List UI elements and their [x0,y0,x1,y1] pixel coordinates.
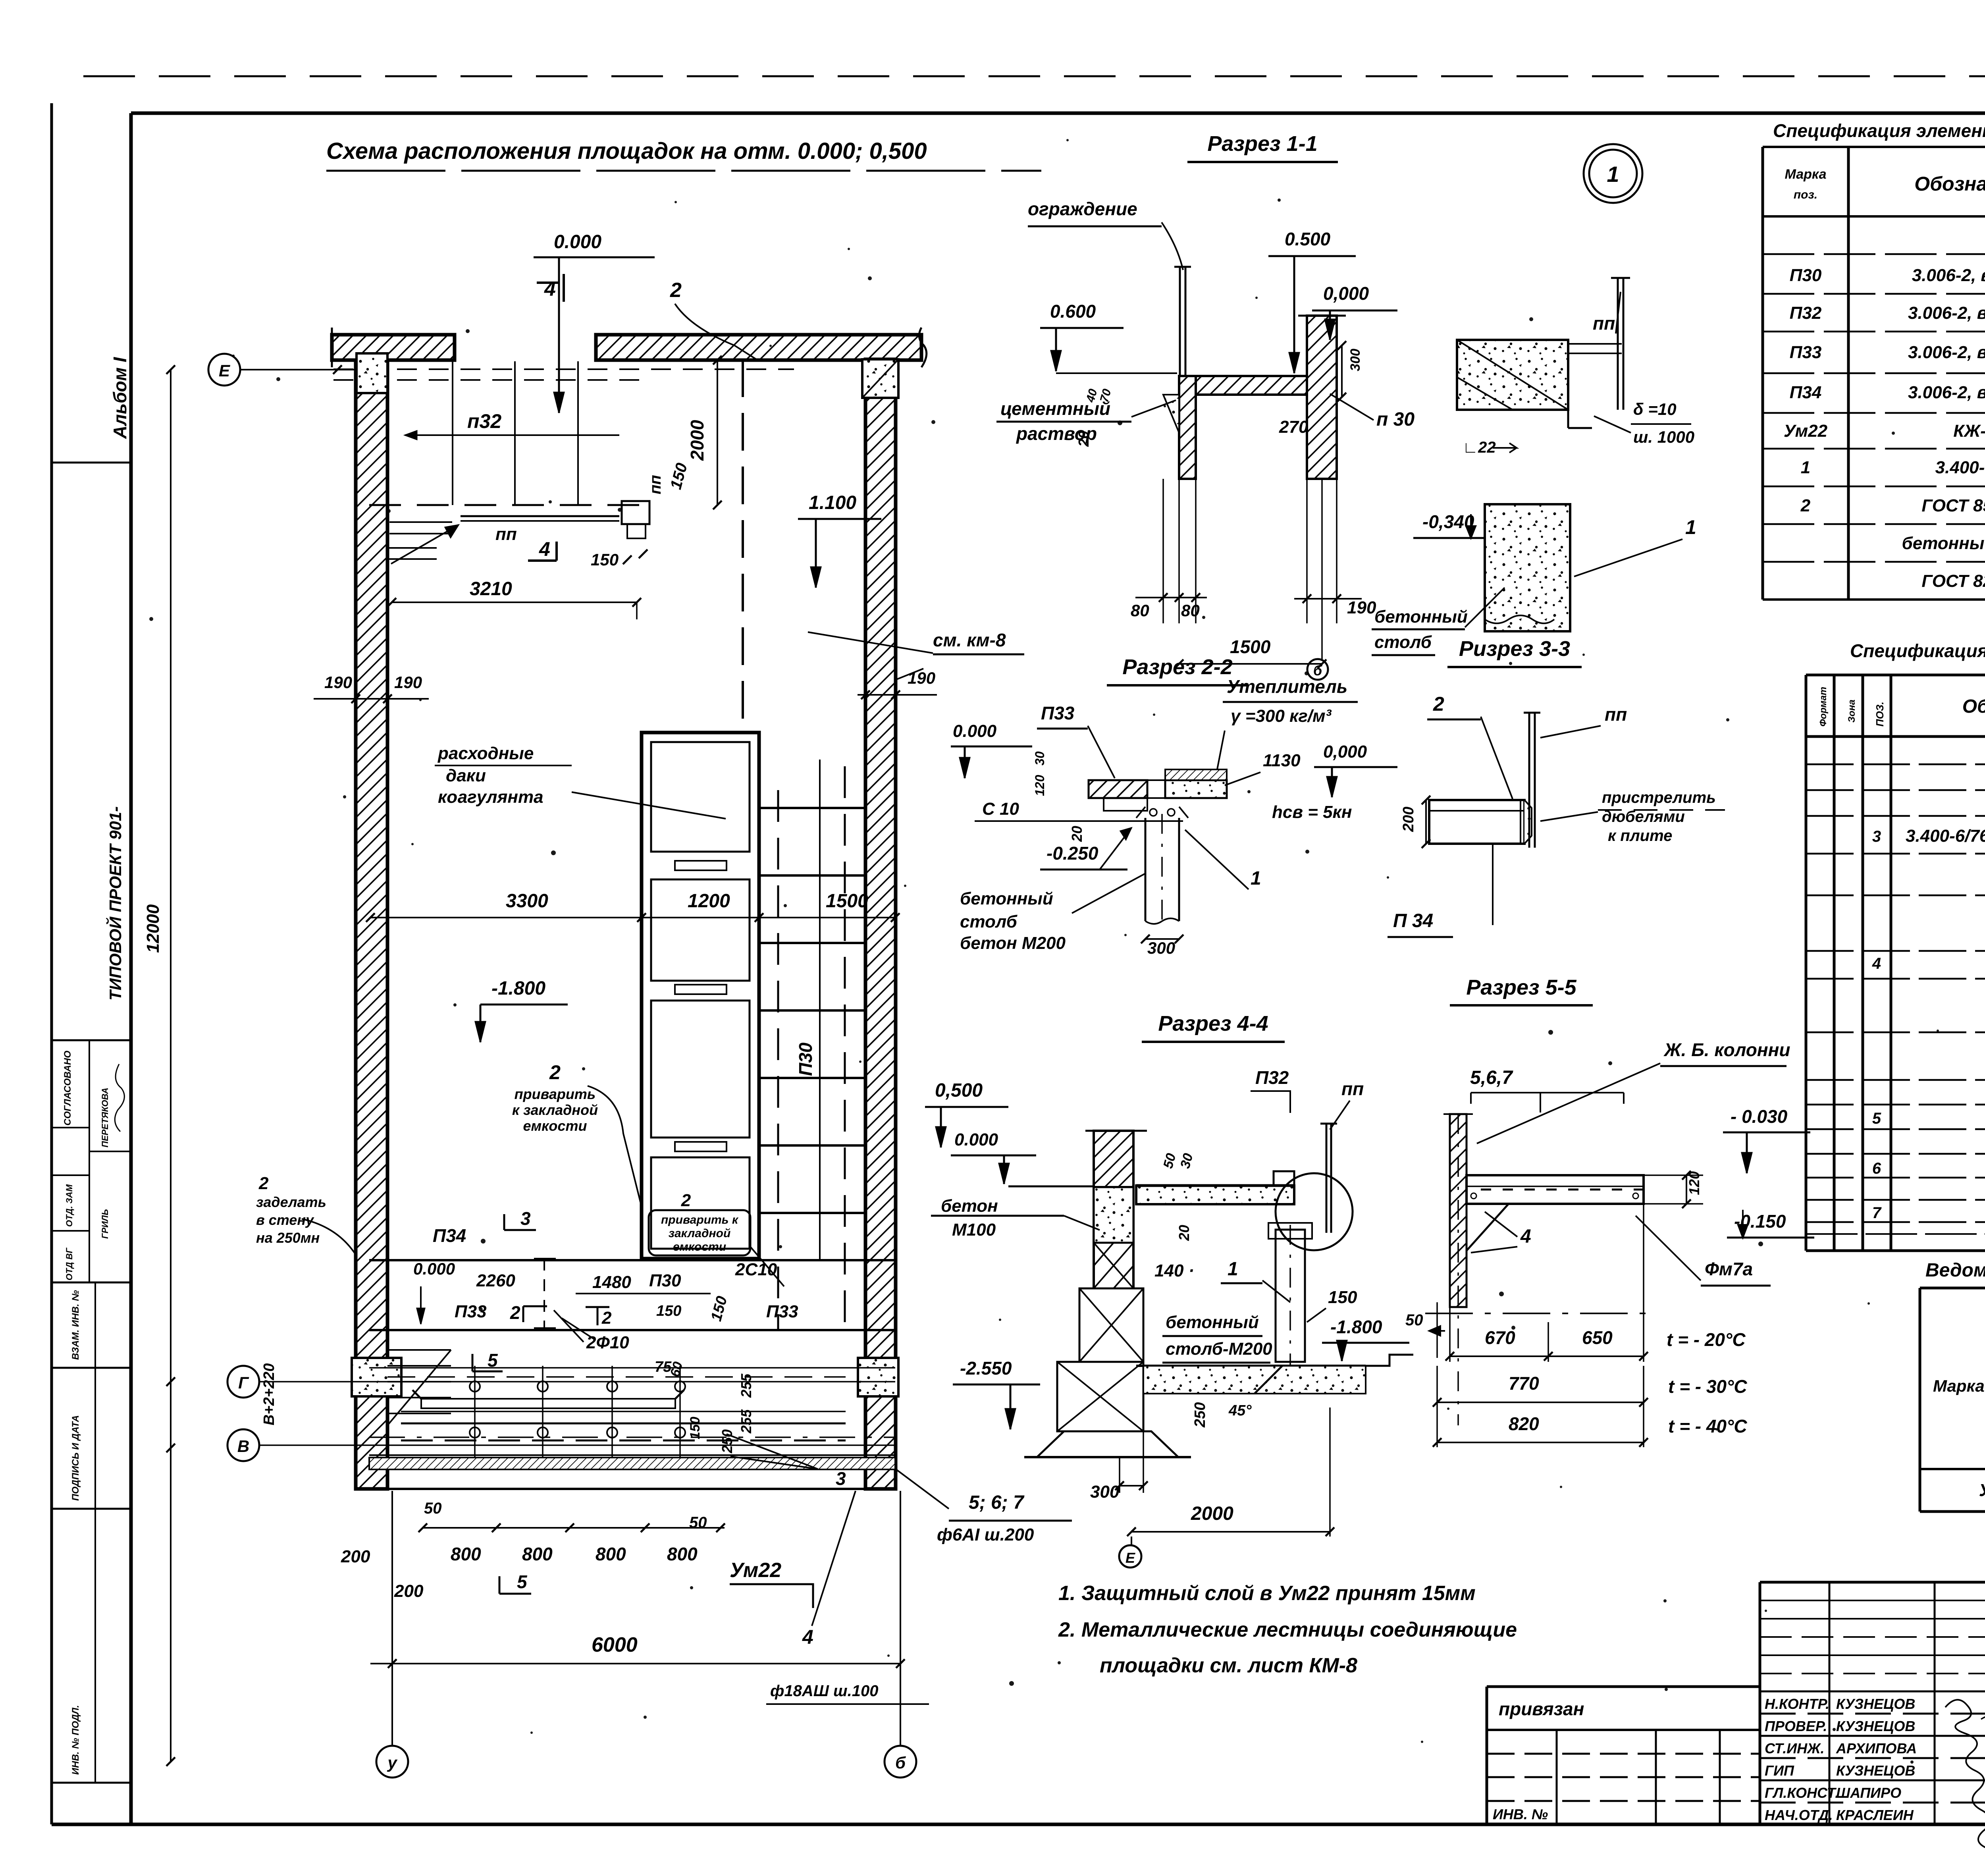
section 5-5 break line [1425,1313,1652,1314]
svg-text:КРАСЛЕИН: КРАСЛЕИН [1836,1807,1914,1823]
section 5-5 dim rows temperature [1449,1307,1451,1362]
svg-text:50: 50 [424,1500,442,1517]
svg-text:бетон: бетон [941,1196,998,1216]
svg-text:4: 4 [539,538,550,560]
section 1-1 axis circle b [1321,479,1323,659]
svg-text:4: 4 [544,278,556,301]
svg-text:2: 2 [1800,496,1811,515]
svg-text:50: 50 [1405,1311,1423,1329]
svg-text:1480: 1480 [592,1273,631,1292]
svg-text:П30: П30 [1790,266,1822,285]
svg-text:Е: Е [1125,1550,1135,1566]
svg-text:коагулянта: коагулянта [438,787,543,807]
svg-text:п32: п32 [467,410,501,432]
section 5-5 corbel [1467,1204,1509,1251]
svg-text:0.000: 0.000 [554,231,601,253]
svg-text:255: 255 [738,1373,754,1398]
svg-text:Г: Г [238,1373,249,1392]
svg-text:3: 3 [520,1208,531,1229]
svg-text:Зона: Зона [1846,700,1857,723]
svg-text:Формат: Формат [1818,687,1829,727]
plan small post PP rect [622,501,649,524]
svg-text:Разрез 2-2: Разрез 2-2 [1122,655,1232,679]
plan bottom left wall closure [356,1488,387,1490]
svg-text:Разрез 1-1: Разрез 1-1 [1207,132,1317,156]
svg-text:800: 800 [595,1544,626,1564]
svg-text:Схема расположения площадок: Схема расположения площадок на отм. 0.00… [326,138,927,164]
svg-text:б: б [895,1753,906,1772]
svg-text:250: 250 [719,1429,735,1454]
svg-text:3.006-2, вып. П-2: 3.006-2, вып. П-2 [1908,343,1985,362]
svg-text:300: 300 [1348,349,1363,371]
sidebar stamp table soglasovano [52,1039,131,1041]
svg-text:3210: 3210 [470,578,512,600]
section 4-4 concrete dots segment inside wall [1094,1187,1133,1243]
svg-text:2260: 2260 [476,1271,515,1290]
svg-text:бетон М200: бетон М200 [960,933,1066,953]
svg-text:5,6,7: 5,6,7 [1470,1067,1513,1088]
dim 2000 vertical [717,359,718,505]
svg-text:200: 200 [1400,807,1417,832]
svg-text:пп: пп [495,524,517,544]
section 4-4 cross braced boxes [1079,1288,1143,1362]
svg-text:поз.: поз. [1794,188,1817,201]
svg-text:см. км-8: см. км-8 [933,630,1006,650]
svg-text:hсв = 5кн: hсв = 5кн [1272,802,1352,822]
svg-text:пп: пп [647,475,664,494]
section 1-1 bottom dims [1162,479,1164,623]
plan P32 plate joint lines [452,361,453,505]
platform edge wedge [389,521,452,523]
plan bottom hatched strip [369,1458,895,1469]
sidebar section tick [52,462,131,464]
svg-text:П33: П33 [1790,343,1822,362]
svg-text:КУЗНЕЦОВ: КУЗНЕЦОВ [1836,1696,1915,1712]
svg-text:1500: 1500 [1230,636,1271,657]
svg-text:Разрез 4-4: Разрез 4-4 [1158,1012,1268,1035]
plan bottom monolithic zone rebar [474,1366,476,1469]
svg-text:3.400-6176: 3.400-6176 [1935,458,1985,477]
svg-text:Обозначение: Обозначение [1962,696,1985,717]
svg-text:80: 80 [1181,601,1200,620]
svg-text:3.006-2, вып. П-2: 3.006-2, вып. П-2 [1908,303,1985,323]
svg-text:П30: П30 [649,1271,681,1290]
plan top wall right segment hatched [596,335,921,360]
plan platform bottom dashed line [369,504,647,506]
svg-text:50: 50 [689,1514,707,1531]
svg-text:150: 150 [1328,1288,1357,1307]
svg-text:250: 250 [1192,1402,1208,1428]
svg-text:-0.250: -0.250 [1046,843,1098,864]
svg-text:2: 2 [1433,693,1444,715]
svg-text:670: 670 [1485,1327,1515,1348]
tank divider nubs [675,861,727,870]
svg-text:150: 150 [688,1417,703,1439]
svg-text:Е: Е [219,361,231,380]
svg-text:привязан: привязан [1499,1699,1584,1719]
svg-text:Ж. Б. колонни: Ж. Б. колонни [1663,1039,1790,1060]
table specification of elements grid [1761,147,1764,600]
svg-text:АРХИПОВА: АРХИПОВА [1836,1740,1917,1756]
svg-text:пп: пп [1341,1078,1364,1099]
svg-text:ГЛ.КОНСТ.: ГЛ.КОНСТ. [1765,1785,1839,1801]
axis circle bottom left [376,1746,408,1778]
privyazan sub table [1556,1730,1558,1824]
svg-text:5; 6; 7: 5; 6; 7 [969,1492,1025,1513]
svg-text:КЖ-44: КЖ-44 [1953,421,1985,441]
svg-text:800: 800 [522,1544,553,1564]
svg-text:800: 800 [451,1544,481,1564]
svg-text:закладной: закладной [669,1227,731,1240]
svg-text:7: 7 [1872,1204,1882,1222]
svg-text:1. Защитный слой в Ум22 при: 1. Защитный слой в Ум22 принят 15мм [1058,1582,1476,1605]
svg-text:П34: П34 [1790,383,1822,402]
svg-text:заделать: заделать [256,1194,326,1210]
svg-text:5: 5 [517,1571,528,1592]
svg-text:1200: 1200 [688,891,730,912]
svg-text:СОГЛАСОВАНО: СОГЛАСОВАНО [62,1051,73,1126]
plan stair lower left [387,1349,451,1351]
svg-text:t = - 40°C: t = - 40°C [1668,1416,1747,1436]
svg-text:ф6АI ш.200: ф6АI ш.200 [937,1525,1034,1544]
section 4-4 footing slab [1136,1365,1366,1367]
svg-text:2. Металлические лестницы со: 2. Металлические лестницы соединяющие [1058,1618,1517,1641]
steel consumption table grid [1919,1288,1921,1512]
svg-text:ГОСТ 8510-72: ГОСТ 8510-72 [1921,496,1985,515]
svg-text:2: 2 [549,1061,561,1084]
svg-text:Разрез 5-5: Разрез 5-5 [1466,976,1576,999]
svg-text:820: 820 [1509,1413,1539,1434]
plan bottom slab band [369,1259,895,1261]
svg-text:расходные: расходные [437,744,534,763]
svg-text:П33: П33 [455,1302,487,1321]
plan stair top left [387,547,437,549]
svg-text:ИНВ. № ПОДЛ.: ИНВ. № ПОДЛ. [70,1705,81,1775]
svg-text:δ =10: δ =10 [1633,400,1677,418]
svg-text:ПОЗ.: ПОЗ. [1874,702,1886,727]
svg-text:20: 20 [1069,826,1085,842]
svg-text:2: 2 [670,279,682,302]
axis circle G [227,1366,259,1398]
section 1-1 slab hatched [1193,376,1323,395]
svg-text:П32: П32 [1255,1067,1289,1088]
svg-text:столб: столб [960,912,1018,931]
title block stacked small rows [1829,1582,1831,1691]
svg-text:ВЗАМ. ИНВ. №: ВЗАМ. ИНВ. № [70,1290,81,1360]
svg-text:2: 2 [510,1302,520,1323]
svg-text:1: 1 [1251,868,1261,889]
svg-text:3: 3 [1872,828,1881,845]
svg-text:1500: 1500 [826,891,868,912]
plan left wall hatched [356,360,387,1489]
svg-text:площадки см. лист КМ-8: площадки см. лист КМ-8 [1100,1654,1357,1677]
svg-text:300: 300 [1147,939,1175,957]
svg-text:3.006-2, вып. П-2: 3.006-2, вып. П-2 [1908,383,1985,402]
svg-text:Фм7а: Фм7а [1705,1259,1753,1279]
svg-text:КУЗНЕЦОВ: КУЗНЕЦОВ [1836,1762,1915,1779]
svg-text:ГИП: ГИП [1765,1762,1794,1779]
svg-text:Марка элемента: Марка элемента [1933,1377,1985,1395]
plan P30 plate joints right strip [759,807,865,809]
svg-text:-2.550: -2.550 [960,1358,1012,1379]
svg-text:140 ·: 140 · [1154,1261,1194,1280]
svg-text:200: 200 [394,1581,424,1601]
svg-text:Ведомость расхода стали на: Ведомость расхода стали на элемент, кг [1925,1260,1985,1281]
svg-text:190: 190 [394,673,422,692]
section 2-2 beam C10 [1104,798,1147,811]
signature scribbles [1945,1700,1985,1849]
svg-text:ПРОВЕР.: ПРОВЕР. [1765,1718,1827,1734]
section 3-3 rail pp [1528,713,1530,848]
svg-text:3300: 3300 [506,891,548,912]
svg-text:П33: П33 [1041,703,1075,723]
overall 12000 dim [170,370,172,1762]
svg-text:2: 2 [681,1191,691,1210]
section 2-2 slab [1089,780,1147,798]
svg-text:п 30: п 30 [1376,409,1415,430]
svg-text:3.400-6/76: 3.400-6/76 [1906,826,1985,846]
sheet frame and borders [50,103,53,1824]
svg-text:ИНВ. №: ИНВ. № [1493,1806,1548,1822]
section 4-4 axis circle E bottom [1131,1537,1132,1545]
detail circle 1 marker [1584,144,1642,203]
svg-text:12000: 12000 [143,904,163,953]
svg-text:к плите: к плите [1608,827,1672,844]
svg-text:150: 150 [591,550,619,569]
svg-text:пп: пп [1593,313,1615,334]
svg-text:6000: 6000 [592,1633,638,1656]
svg-text:0,000: 0,000 [1323,283,1369,304]
svg-text:0.600: 0.600 [1050,301,1096,322]
svg-text:- 0.030: - 0.030 [1731,1106,1788,1127]
section 3-3 plate [1429,800,1524,844]
svg-text:γ =300 кг/м³: γ =300 кг/м³ [1231,706,1332,726]
svg-text:-1.800: -1.800 [1330,1317,1382,1337]
detail rail PP [1617,278,1619,410]
section 4-4 cross hatch segment of wall [1094,1243,1133,1288]
svg-text:ТИПОВОЙ ПРОЕКТ 901-: ТИПОВОЙ ПРОЕКТ 901- [105,806,125,1001]
svg-text:пристрелить: пристрелить [1602,789,1716,806]
svg-text:П30: П30 [795,1042,816,1076]
svg-text:Спецификация элементов к: Спецификация элементов к схеме расположе… [1773,120,1985,141]
svg-text:2000: 2000 [687,420,707,461]
svg-text:120: 120 [1033,775,1047,796]
svg-text:2: 2 [258,1174,269,1193]
svg-text:Ум22: Ум22 [730,1559,781,1582]
svg-text:СТ.ИНЖ.: СТ.ИНЖ. [1765,1740,1825,1756]
section 4-4 post [1276,1230,1305,1362]
plan tank inner cells [651,742,750,852]
svg-text:2000: 2000 [1191,1503,1233,1524]
svg-text:КУЗНЕЦОВ: КУЗНЕЦОВ [1836,1718,1915,1734]
svg-text:Ризрез 3-3: Ризрез 3-3 [1459,637,1570,661]
svg-text:t = - 20°C: t = - 20°C [1667,1329,1746,1350]
svg-text:НАЧ.ОТД.: НАЧ.ОТД. [1765,1807,1833,1823]
svg-text:Ум22: Ум22 [1784,421,1828,441]
svg-text:t = - 30°C: t = - 30°C [1668,1376,1747,1397]
svg-text:0.000: 0.000 [413,1259,455,1278]
svg-text:190: 190 [1347,598,1376,617]
svg-text:ПОДПИСЬ И ДАТА: ПОДПИСЬ И ДАТА [70,1415,81,1501]
svg-text:0.000: 0.000 [954,1130,998,1149]
title block signature rows [1760,1691,1985,1693]
svg-text:190: 190 [324,673,352,692]
svg-text:П 34: П 34 [1393,910,1433,931]
svg-text:П32: П32 [1790,303,1822,323]
svg-text:бетонный: бетонный [960,889,1053,908]
svg-text:столб: столб [1374,632,1432,652]
svg-text:0.500: 0.500 [1285,229,1331,249]
plan top wall left segment hatched [332,335,455,360]
svg-text:у: у [387,1753,398,1772]
plan top wall face dashed lines [333,368,794,370]
svg-text:ГОСТ 8240-72: ГОСТ 8240-72 [1921,571,1985,591]
svg-text:2С10: 2С10 [735,1260,777,1279]
svg-text:5: 5 [488,1350,498,1371]
detail pedestal [1485,504,1570,631]
svg-text:Утеплитель: Утеплитель [1227,676,1347,697]
svg-text:Обозначение: Обозначение [1914,173,1985,195]
svg-text:бетонный: бетонный [1166,1313,1259,1332]
svg-text:1130: 1130 [1263,751,1301,770]
svg-text:1: 1 [1607,162,1619,187]
plan right wall hatched [865,359,896,1489]
svg-text:1: 1 [1228,1259,1238,1280]
axis circle V [227,1429,259,1461]
svg-text:емкости: емкости [673,1240,726,1253]
svg-text:даки: даки [446,766,486,785]
svg-text:770: 770 [1509,1373,1539,1394]
svg-text:1: 1 [1685,516,1696,538]
svg-text:В: В [237,1437,249,1456]
svg-text:С 10: С 10 [982,799,1019,819]
svg-text:Спецификация к монолитному: Спецификация к монолитному участку Ум22 [1850,640,1985,661]
svg-text:ОТД ВГ: ОТД ВГ [64,1247,74,1280]
table monolithic section grid [1805,675,1808,1251]
section 1-1 right wall [1307,316,1337,479]
svg-text:150: 150 [656,1303,681,1319]
svg-text:ШАПИРО: ШАПИРО [1836,1785,1901,1801]
svg-text:ш. 1000: ш. 1000 [1633,428,1694,446]
title block outline [1760,1581,1985,1584]
svg-text:3: 3 [836,1468,846,1489]
svg-text:190: 190 [908,669,935,687]
svg-text:Альбом I: Альбом I [110,357,130,439]
svg-text:приварить к: приварить к [661,1213,739,1226]
svg-text:0.000: 0.000 [953,721,997,741]
svg-text:ПЕРЕТЯКОВА: ПЕРЕТЯКОВА [100,1087,110,1147]
svg-text:П33: П33 [766,1302,798,1321]
svg-text:20: 20 [1075,431,1092,447]
svg-text:Марка: Марка [1785,167,1827,182]
svg-text:4: 4 [1520,1226,1531,1247]
svg-text:В+2+220: В+2+220 [261,1363,278,1425]
svg-text:650: 650 [1582,1327,1613,1348]
plan bottom zone extra lines [369,1367,895,1369]
wall pilaster blocks with concrete dots [357,353,387,393]
svg-text:ОТД. ЗАМ: ОТД. ЗАМ [64,1184,74,1227]
svg-text:1: 1 [1801,458,1810,477]
svg-text:М100: М100 [952,1220,996,1240]
svg-text:2Ф10: 2Ф10 [586,1333,629,1352]
svg-text:бетонный столб: бетонный столб [1902,534,1985,553]
svg-text:5: 5 [1872,1110,1881,1127]
svg-text:столб-М200: столб-М200 [1166,1339,1272,1359]
section 4-4 wall hatched [1094,1131,1133,1187]
section 4-4 slab upturn and rail [1274,1171,1294,1186]
svg-text:ф18АШ ш.100: ф18АШ ш.100 [770,1682,878,1700]
svg-text:ГРИЛЬ: ГРИЛЬ [100,1209,110,1239]
axis circle E [208,354,240,386]
svg-text:-1.800: -1.800 [491,978,545,999]
svg-text:∟22: ∟22 [1463,439,1496,456]
svg-text:пп: пп [1605,704,1627,725]
dim 6000 bottom [370,1663,900,1664]
svg-text:0,500: 0,500 [935,1080,983,1101]
svg-text:ограждение: ограждение [1028,199,1137,219]
svg-text:к закладной: к закладной [512,1102,598,1118]
svg-text:45°: 45° [1228,1402,1252,1419]
svg-text:300: 300 [1090,1482,1120,1502]
svg-text:на 250мн: на 250мн [256,1230,320,1246]
top dash-dot trim line [83,75,1985,77]
svg-text:255: 255 [738,1409,754,1434]
plan dashed axis lines vertical [742,359,744,733]
sidebar stamp table inv numbers [52,1367,131,1369]
svg-text:Ум 22: Ум 22 [1979,1481,1985,1500]
svg-text:1.100: 1.100 [809,492,856,513]
section 1-1 fence post [1179,267,1181,376]
axis circle bottom right [885,1746,916,1778]
svg-text:П34: П34 [433,1225,466,1246]
svg-text:0,000: 0,000 [1323,742,1367,762]
svg-text:бетонный: бетонный [1374,607,1468,627]
svg-text:200: 200 [341,1547,370,1566]
svg-text:4: 4 [1872,955,1881,972]
section 5-5 slab with rebar [1467,1175,1644,1204]
svg-text:3.006-2, вып II-2: 3.006-2, вып II-2 [1912,266,1985,285]
section 1-1 left support [1179,376,1196,479]
svg-text:80: 80 [1131,601,1149,620]
detail slab block [1457,340,1568,410]
section 5-5 column hatched [1450,1114,1467,1307]
section 4-4 slab [1136,1186,1294,1204]
svg-text:емкости: емкости [523,1118,587,1134]
section 2-2 post [1145,818,1147,921]
section 4-4 foundation trapezoid [1037,1431,1178,1457]
svg-text:20: 20 [1176,1225,1192,1241]
svg-text:приварить: приварить [515,1086,596,1102]
svg-text:800: 800 [667,1544,698,1564]
svg-text:4: 4 [802,1626,813,1648]
svg-text:30: 30 [1033,751,1047,765]
plan tank outer [642,733,759,1259]
section 4-4 detail circle [1276,1173,1353,1250]
svg-text:2: 2 [601,1308,612,1328]
svg-text:270: 270 [1279,417,1309,437]
svg-text:6: 6 [1872,1160,1881,1177]
svg-text:Н.КОНТР.: Н.КОНТР. [1765,1696,1829,1712]
